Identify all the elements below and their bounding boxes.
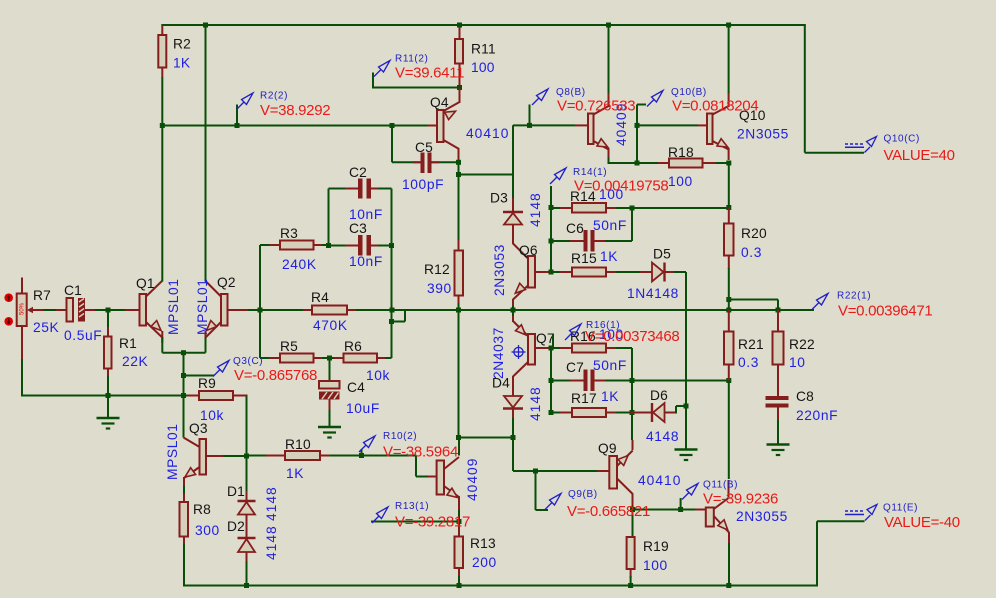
- junction R20 bottom: [726, 297, 731, 302]
- resistor R4: [260, 306, 356, 315]
- value MPSL01 (Q3) vertical: [165, 423, 180, 480]
- wire ground bus: [22, 395, 200, 397]
- value 1K: [173, 56, 191, 71]
- svg-text:R17: R17: [571, 391, 597, 406]
- svg-text:Q10(B): Q10(B): [671, 87, 707, 98]
- wire R22 jog drop: [777, 300, 779, 311]
- svg-text:V=-38.5964: V=-38.5964: [383, 444, 458, 461]
- wire R2 to Q1 collector: [161, 77, 163, 282]
- ground (bias chain): [675, 450, 698, 461]
- label R22: [789, 337, 815, 352]
- label R19: [643, 539, 669, 554]
- junction top rail / Q2 column: [203, 23, 208, 28]
- wire -40 terminal stub: [817, 520, 865, 522]
- svg-text:R13: R13: [470, 536, 496, 551]
- wire C6 right riser: [631, 208, 633, 241]
- probe value VALUE=-40: [884, 514, 960, 531]
- junction R4 left / Q2 base: [258, 308, 263, 313]
- label R8: [193, 502, 211, 517]
- svg-text:V=0.0818204: V=0.0818204: [672, 98, 758, 115]
- terminal label Q11(E): [883, 503, 918, 514]
- ground (C4): [318, 427, 341, 438]
- capacitor C4: [319, 358, 340, 427]
- svg-text:100: 100: [643, 558, 668, 573]
- wire Q6 emitter to output: [512, 306, 514, 310]
- value MPSL01 (Q1) vertical: [166, 278, 181, 335]
- value 100 (R14): [599, 187, 624, 202]
- svg-text:R7: R7: [33, 288, 51, 303]
- value 1K (R17): [601, 389, 619, 404]
- value 0.3 (R20): [741, 245, 762, 260]
- value 1K (R10): [286, 466, 304, 481]
- probe value V=0.00396471: [838, 303, 932, 320]
- value 50nF (C6): [593, 218, 627, 233]
- junction R19 / rail: [628, 583, 633, 588]
- value 10k (R5/R6): [366, 368, 390, 383]
- resistor R22: [773, 310, 784, 396]
- label D2: [227, 519, 245, 534]
- svg-text:10k: 10k: [366, 368, 390, 383]
- capacitor C2: [329, 179, 392, 199]
- resistor R16: [551, 344, 632, 353]
- junction Q6/Q7 emitters: [511, 308, 516, 313]
- svg-text:R21: R21: [738, 337, 764, 352]
- junction probe Q8(B): [527, 123, 532, 128]
- svg-text:50%: 50%: [20, 302, 26, 315]
- value MPSL01 (Q2) vertical: [195, 278, 210, 335]
- label C5: [415, 140, 433, 155]
- junction probe R13(1): [457, 519, 462, 524]
- svg-text:Q11(E): Q11(E): [883, 503, 918, 514]
- junction Q10 base node: [635, 123, 640, 128]
- probe value V=-0.865768: [234, 367, 317, 384]
- value 4148 (D6): [646, 429, 679, 444]
- probe value VALUE=40: [884, 147, 955, 164]
- wire probe R13(1): [371, 521, 459, 523]
- value 10nF (C2): [349, 207, 383, 222]
- svg-text:Q7: Q7: [536, 331, 555, 346]
- transistor Q8: [575, 92, 609, 158]
- junction R17 right: [630, 410, 635, 415]
- svg-text:V=0.00419758: V=0.00419758: [574, 178, 668, 195]
- svg-text:50nF: 50nF: [593, 358, 627, 373]
- resistor R15: [551, 268, 652, 277]
- label Q7: [536, 331, 555, 346]
- label R4: [311, 290, 329, 305]
- wire probe R11(2) to R11 node: [373, 87, 457, 89]
- svg-text:240K: 240K: [282, 257, 317, 272]
- junction R22 top: [776, 308, 781, 313]
- value 10nF (C3): [349, 254, 383, 269]
- svg-text:Q10(C): Q10(C): [884, 134, 920, 145]
- resistor R13: [455, 510, 464, 587]
- resistor R20: [724, 208, 734, 301]
- svg-text:Q2: Q2: [217, 275, 236, 290]
- svg-text:R8: R8: [193, 502, 211, 517]
- wire Q2 emitter down: [205, 337, 207, 353]
- wire Q1 emitter down: [161, 337, 163, 353]
- svg-text:200: 200: [472, 555, 497, 570]
- junction D4 bottom: [511, 435, 516, 440]
- wire Q9 to R19: [632, 505, 634, 537]
- terminal label Q10(C): [884, 134, 920, 145]
- label R3: [280, 226, 298, 241]
- wire Q10 base to R18 node: [636, 125, 638, 163]
- svg-text:470K: 470K: [313, 318, 348, 333]
- power terminal Q11(E) -40V: [845, 505, 877, 521]
- probe label R10(2): [383, 431, 417, 442]
- diode D6: [616, 403, 686, 422]
- svg-text:VALUE=40: VALUE=40: [884, 147, 955, 164]
- wire into C5: [392, 161, 421, 163]
- junction D6 node: [684, 404, 689, 409]
- label R20: [741, 226, 767, 241]
- svg-text:2N4037: 2N4037: [491, 327, 506, 379]
- transistor Q5: [428, 438, 459, 512]
- label R15: [571, 251, 597, 266]
- junction probe R2(2): [235, 123, 240, 128]
- wire R10 to Q5 base: [362, 455, 417, 457]
- wire Q10 emitter to R14 line: [728, 163, 730, 208]
- junction R4 right / C-network: [390, 308, 395, 313]
- value 22K: [122, 354, 149, 369]
- value 240K: [282, 257, 317, 272]
- resistor R9: [187, 391, 248, 400]
- label D4: [492, 376, 510, 391]
- wire down to R12: [458, 162, 460, 240]
- probe label R22(1): [837, 291, 871, 302]
- svg-text:R22: R22: [789, 337, 815, 352]
- diode D1: [238, 491, 256, 527]
- svg-text:100: 100: [668, 174, 693, 189]
- svg-text:1K: 1K: [601, 389, 619, 404]
- probe value V=0.00373468: [585, 328, 679, 345]
- junction base-line / R2 column: [160, 123, 165, 128]
- value 10 (R22): [789, 355, 806, 370]
- junction Q9 / Q11 base: [630, 507, 635, 512]
- probe label Q11(B): [703, 480, 738, 491]
- svg-text:Q8(B): Q8(B): [556, 87, 586, 98]
- junction C1 / R1 / Q1 base: [106, 308, 111, 313]
- label D6: [650, 388, 668, 403]
- svg-text:MPSL01: MPSL01: [166, 278, 181, 335]
- transistor Q4: [428, 88, 460, 164]
- resistor R1: [104, 310, 112, 396]
- junction R20/R21 column: [726, 308, 731, 313]
- value 100: [471, 60, 495, 75]
- junction base line / C5 drop: [390, 123, 395, 128]
- svg-text:MPSL01: MPSL01: [195, 278, 210, 335]
- junction R12 bottom: [456, 308, 461, 313]
- junction Q5 collector / Q9 base line: [456, 435, 461, 440]
- svg-text:1K: 1K: [600, 249, 618, 264]
- label R6: [344, 339, 362, 354]
- svg-text:R1: R1: [119, 336, 137, 351]
- probe value V=0.0818204: [672, 98, 758, 115]
- value 2N4037 (Q7) vertical: [491, 327, 506, 379]
- label R21: [738, 337, 764, 352]
- junction C3 right: [389, 243, 394, 248]
- svg-text:R14(1): R14(1): [573, 167, 607, 178]
- svg-text:R2: R2: [173, 37, 191, 52]
- wire output line: [248, 309, 814, 311]
- wire D5-D6 ground column: [685, 272, 687, 449]
- wire R16 right riser to Q9: [631, 348, 633, 440]
- svg-text:C7: C7: [566, 360, 584, 375]
- label C6: [566, 221, 584, 236]
- svg-text:390: 390: [427, 281, 452, 296]
- svg-text:1K: 1K: [173, 56, 191, 71]
- svg-text:R10(2): R10(2): [383, 431, 417, 442]
- value 0.5uF: [64, 328, 102, 343]
- voltage probe Q3(C): [213, 361, 229, 377]
- resistor R3: [260, 241, 330, 250]
- junction C7 left: [549, 378, 554, 383]
- label R18: [668, 145, 694, 160]
- value 4148 (D3) vertical: [528, 192, 543, 227]
- wire right rail drop: [804, 25, 806, 153]
- junction Q4 collector node: [456, 172, 461, 177]
- svg-text:D6: D6: [650, 388, 668, 403]
- label D5: [653, 247, 671, 262]
- value 1N4148: [627, 286, 679, 301]
- wire Q9 base drop: [512, 438, 514, 472]
- svg-text:V=-39.2817: V=-39.2817: [395, 514, 470, 531]
- junction R5/R6/C4: [327, 356, 332, 361]
- wire D3 column up: [512, 125, 514, 174]
- junction R14 line right: [726, 205, 731, 210]
- resistor R11: [455, 25, 463, 88]
- transistor Q11: [695, 480, 729, 544]
- svg-text:100: 100: [471, 60, 495, 75]
- junction emitter bus: [181, 350, 186, 355]
- svg-text:0.3: 0.3: [741, 245, 762, 260]
- probe label Q3(C): [233, 356, 263, 367]
- svg-text:VALUE=-40: VALUE=-40: [884, 514, 960, 531]
- wire C2 left drop: [328, 189, 330, 246]
- svg-text:R9: R9: [198, 376, 216, 391]
- svg-text:R5: R5: [280, 339, 298, 354]
- resistor R6: [330, 354, 392, 363]
- svg-text:R11: R11: [471, 42, 496, 57]
- voltage probe Q9(B): [536, 471, 562, 510]
- svg-text:300: 300: [195, 523, 220, 538]
- wire emitter bus: [162, 352, 205, 354]
- svg-text:V=0.00373468: V=0.00373468: [585, 328, 679, 345]
- svg-text:D5: D5: [653, 247, 671, 262]
- origin marker: [512, 345, 526, 359]
- svg-text:R19: R19: [643, 539, 669, 554]
- junction R11 bottom node: [457, 85, 462, 90]
- svg-text:10nF: 10nF: [349, 207, 383, 222]
- ground (C8): [767, 445, 790, 456]
- wire Q11 emitter to rail: [728, 543, 730, 587]
- label R2: [173, 37, 191, 52]
- svg-text:2N3053: 2N3053: [492, 244, 507, 296]
- wire base line to C5: [391, 126, 393, 163]
- value 25K: [33, 320, 60, 335]
- svg-text:R15: R15: [571, 251, 597, 266]
- junction riser jog: [389, 319, 394, 324]
- capacitor C7: [551, 370, 632, 392]
- junction probe Q11(B): [678, 507, 683, 512]
- junction probe Q3(C): [181, 373, 186, 378]
- diode D4: [503, 387, 523, 438]
- value 390: [427, 281, 452, 296]
- svg-text:D3: D3: [490, 191, 508, 206]
- svg-text:Q6: Q6: [519, 243, 538, 258]
- label Q10: [739, 108, 766, 123]
- wire R12 node down: [458, 310, 460, 438]
- value 4148 (D4) vertical: [528, 386, 543, 421]
- svg-text:R13(1): R13(1): [395, 501, 429, 512]
- value 40409 (Q5) vertical: [465, 458, 480, 501]
- svg-text:D4: D4: [492, 376, 510, 391]
- pot actuator up: [4, 293, 13, 302]
- wire Q4 base line: [162, 125, 427, 127]
- svg-text:2N3055: 2N3055: [737, 127, 789, 142]
- junction Q11 emitter / rail: [726, 583, 731, 588]
- junction Q3 base / R10 / D1: [244, 454, 249, 459]
- label C1: [64, 283, 82, 298]
- svg-text:MPSL01: MPSL01: [165, 423, 180, 480]
- label Q1: [136, 276, 155, 291]
- svg-text:R4: R4: [311, 290, 329, 305]
- svg-text:1N4148: 1N4148: [627, 286, 679, 301]
- label R13: [470, 536, 496, 551]
- svg-text:40410: 40410: [638, 473, 681, 488]
- wire R14-C6 left column: [550, 186, 552, 272]
- svg-text:10uF: 10uF: [346, 401, 380, 416]
- wire C5 to Q4 emitter node: [432, 161, 459, 163]
- value 10k (R9): [200, 408, 224, 423]
- transistor Q1: [125, 281, 162, 343]
- wire rail to Q10 collector: [728, 25, 730, 93]
- wire ground stub: [107, 396, 109, 419]
- value 470K: [313, 318, 348, 333]
- voltage probe R22(1): [812, 294, 828, 310]
- svg-text:R18: R18: [668, 145, 694, 160]
- value 100 (R18): [668, 174, 693, 189]
- junction D2 / rail: [244, 583, 249, 588]
- label C8: [796, 389, 814, 404]
- junction probe R10(2): [359, 453, 364, 458]
- junction R1 bottom / ground: [106, 393, 111, 398]
- label R10: [285, 437, 311, 452]
- wire to +40 terminal: [805, 152, 864, 154]
- junction R14 right: [630, 206, 635, 211]
- svg-text:R10: R10: [285, 437, 311, 452]
- capacitor C1: [56, 298, 125, 322]
- value 4148 (D1) vertical: [264, 486, 279, 521]
- value 4148 (D2) vertical: [264, 525, 279, 560]
- svg-text:C6: C6: [566, 221, 584, 236]
- svg-text:4148: 4148: [264, 486, 279, 521]
- diode D3: [503, 175, 523, 245]
- power terminal Q10(C) +40V: [845, 137, 877, 153]
- capacitor C6: [551, 230, 632, 252]
- wire pot wiper to C1: [43, 309, 58, 311]
- junction R18 right / Q10 emitter: [726, 161, 731, 166]
- wire R3/R4/R5 left column: [259, 245, 261, 358]
- svg-text:4148: 4148: [528, 192, 543, 227]
- value 40410 (Q9): [638, 473, 681, 488]
- svg-text:C2: C2: [349, 165, 367, 180]
- label R9: [198, 376, 216, 391]
- resistor R12: [455, 240, 464, 310]
- value 10uF: [346, 401, 380, 416]
- svg-text:4148: 4148: [646, 429, 679, 444]
- svg-text:D2: D2: [227, 519, 245, 534]
- wire rail to Q2 collector: [205, 24, 207, 282]
- svg-text:V=38.9292: V=38.9292: [260, 102, 330, 119]
- value 2N3053 (Q6) vertical: [492, 244, 507, 296]
- junction R14 left: [549, 205, 554, 210]
- wire Q9 to Q11 base: [633, 509, 696, 511]
- voltage probe R16(1): [553, 324, 581, 348]
- wire R14 node to R20 column: [632, 207, 729, 209]
- wire C2/C3 right riser: [391, 189, 393, 359]
- svg-text:4148: 4148: [528, 386, 543, 421]
- voltage probe Q11(B): [681, 484, 698, 510]
- voltage probe Q10(B): [637, 91, 663, 126]
- voltage probe R10(2): [359, 436, 375, 456]
- resistor R19: [627, 537, 635, 587]
- probe label R16(1): [586, 320, 620, 331]
- wire probe Q3(C) stub: [184, 375, 215, 377]
- probe value V=39.6411: [395, 65, 464, 82]
- wire Q9 base line: [513, 470, 597, 472]
- probe label R2(2): [260, 91, 288, 102]
- junction C7 right: [630, 378, 635, 383]
- pot actuator down: [4, 317, 13, 326]
- svg-text:R12: R12: [424, 262, 450, 277]
- svg-text:R20: R20: [741, 226, 767, 241]
- wire R20 to output: [728, 300, 730, 311]
- junction top rail / R11: [457, 23, 462, 28]
- probe label R14(1): [573, 167, 607, 178]
- svg-text:0.3: 0.3: [738, 355, 759, 370]
- junction R17 left: [549, 410, 554, 415]
- wire -40V bottom rail: [183, 585, 817, 587]
- label C7: [566, 360, 584, 375]
- svg-text:R3: R3: [280, 226, 298, 241]
- transistor Q9: [597, 440, 633, 506]
- svg-text:R6: R6: [344, 339, 362, 354]
- wire jog horizontal: [392, 321, 406, 323]
- svg-text:40410: 40410: [466, 126, 509, 141]
- svg-text:220nF: 220nF: [796, 408, 838, 423]
- probe label Q10(B): [671, 87, 707, 98]
- junction top rail / Q8 collector: [606, 23, 611, 28]
- transistor Q2: [206, 281, 249, 343]
- wire C7 node to R21 bottom: [632, 380, 729, 382]
- svg-text:10nF: 10nF: [349, 254, 383, 269]
- value 40409 (Q8) vertical: [614, 103, 629, 146]
- label Q2: [217, 275, 236, 290]
- value 200: [472, 555, 497, 570]
- voltage probe R14(1): [550, 168, 566, 207]
- label C3: [349, 221, 367, 236]
- wire R9 to Q3 base column: [246, 396, 248, 457]
- svg-text:V=-39.9236: V=-39.9236: [703, 491, 778, 508]
- transistor Q6: [513, 244, 551, 308]
- value 50nF (C7): [593, 358, 627, 373]
- svg-text:4148: 4148: [264, 525, 279, 560]
- wire emitters to R9 node: [183, 353, 185, 396]
- junction Q7 base / R16: [549, 346, 554, 351]
- svg-text:10: 10: [789, 355, 806, 370]
